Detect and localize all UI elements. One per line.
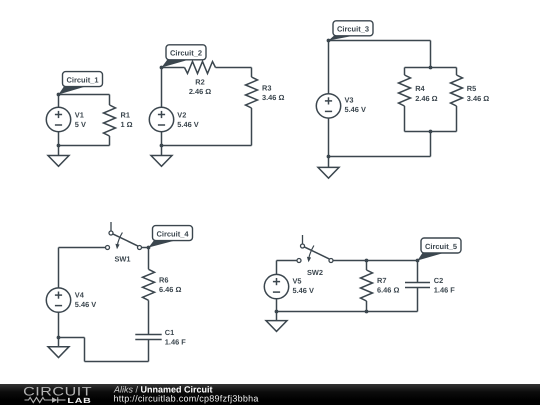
svg-text:Circuit_3: Circuit_3 [337, 25, 369, 34]
svg-text:C1: C1 [165, 328, 174, 337]
svg-text:SW1: SW1 [115, 255, 131, 264]
svg-text:2.46 Ω: 2.46 Ω [415, 94, 437, 103]
svg-text:LAB: LAB [67, 396, 91, 405]
svg-text:3.46 Ω: 3.46 Ω [262, 93, 284, 102]
svg-text:Circuit_4: Circuit_4 [156, 229, 189, 238]
svg-text:R7: R7 [377, 276, 386, 285]
svg-text:R6: R6 [159, 276, 168, 285]
svg-text:5.46 V: 5.46 V [345, 105, 366, 114]
svg-text:V3: V3 [345, 96, 354, 105]
svg-text:5.46 V: 5.46 V [293, 286, 314, 295]
svg-text:R4: R4 [415, 84, 425, 93]
svg-text:SW2: SW2 [307, 268, 323, 277]
svg-text:R2: R2 [195, 78, 204, 87]
svg-text:C2: C2 [434, 276, 443, 285]
svg-text:2.46 Ω: 2.46 Ω [189, 87, 211, 96]
svg-text:Circuit_1: Circuit_1 [66, 75, 98, 84]
svg-text:V5: V5 [293, 277, 302, 286]
svg-text:5 V: 5 V [75, 120, 86, 129]
svg-text:6.46 Ω: 6.46 Ω [377, 285, 399, 294]
svg-text:V4: V4 [75, 291, 85, 300]
svg-text:V1: V1 [75, 110, 84, 119]
svg-text:5.46 V: 5.46 V [75, 300, 96, 309]
svg-text:V2: V2 [177, 111, 186, 120]
svg-text:R1: R1 [121, 110, 130, 119]
svg-text:1 Ω: 1 Ω [121, 120, 133, 129]
svg-text:Circuit_2: Circuit_2 [170, 49, 202, 58]
svg-text:5.46 V: 5.46 V [177, 120, 198, 129]
svg-text:R3: R3 [262, 84, 271, 93]
svg-text:3.46 Ω: 3.46 Ω [467, 94, 489, 103]
svg-text:R5: R5 [467, 84, 476, 93]
svg-text:http://circuitlab.com/cp89fzfj: http://circuitlab.com/cp89fzfj3bbha [114, 393, 259, 403]
svg-text:1.46 F: 1.46 F [434, 286, 455, 295]
svg-text:6.46 Ω: 6.46 Ω [159, 285, 181, 294]
svg-text:1.46 F: 1.46 F [165, 337, 186, 346]
svg-text:Circuit_5: Circuit_5 [425, 242, 457, 251]
